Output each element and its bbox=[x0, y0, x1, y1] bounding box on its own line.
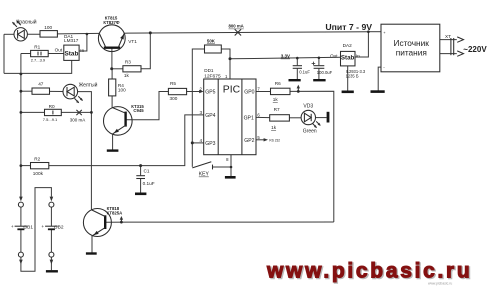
resistor R3 bbox=[123, 66, 141, 72]
svg-text:DA2: DA2 bbox=[343, 43, 353, 48]
wire: DA1 In riser bbox=[79, 34, 87, 51]
wire: GB1 battery to lower connector bbox=[20, 229, 22, 252]
wire: long drop to KT818 emitter bbox=[90, 112, 92, 209]
wire: PIC pin 8 drop to ground bbox=[230, 155, 232, 176]
resistor R7 bbox=[270, 115, 290, 121]
node: R0-row tap bbox=[20, 111, 23, 114]
node: yellow LED drop joins R0 row bbox=[90, 111, 93, 114]
wire: 47 resistor row bbox=[21, 90, 32, 92]
LED VD3 green bbox=[301, 110, 321, 128]
wire: C3 bottom stub to ground bbox=[318, 69, 320, 80]
svg-text:0.1uF: 0.1uF bbox=[143, 181, 155, 186]
svg-text:DD1: DD1 bbox=[204, 68, 214, 73]
wire: R2 to GP4 riser bbox=[49, 115, 204, 166]
wire: R1 right lead to DA1 Out bbox=[48, 53, 64, 55]
resistor R6 bbox=[271, 88, 291, 94]
svg-text:8: 8 bbox=[226, 157, 229, 162]
wire: left drop from red LED cathode node bbox=[3, 34, 5, 73]
node: ADJ / R1-left bbox=[20, 73, 23, 76]
connector pin GB1 top (arrow and socket) bbox=[18, 197, 23, 208]
resistor R4 (vertical) bbox=[109, 79, 116, 96]
svg-text:R3: R3 bbox=[125, 60, 131, 65]
wire: R6 to loop corner and drop to KT818 base run bbox=[290, 91, 334, 222]
svg-text:100: 100 bbox=[118, 88, 126, 93]
ground under DA2 bbox=[342, 91, 354, 94]
svg-text:GP3: GP3 bbox=[205, 141, 215, 147]
wire: C3 top stub bbox=[318, 58, 320, 66]
wire: 50K left lead and GP3 pull-down run to KEY bbox=[192, 49, 204, 167]
svg-text:100k: 100k bbox=[33, 171, 44, 176]
resistor R5 300 bbox=[168, 88, 186, 94]
connector pin GB1 bottom (socket and arrow) bbox=[18, 252, 23, 264]
node: KT818 base arrow tap bbox=[120, 221, 123, 224]
arrow up on KT818 base net bbox=[120, 216, 123, 222]
svg-text:1: 1 bbox=[225, 74, 228, 79]
wire: XT lower lead bbox=[440, 53, 457, 55]
svg-text:7.5...9.1: 7.5...9.1 bbox=[43, 117, 58, 122]
watermark www.picbasic.ru bbox=[266, 260, 474, 286]
ground under KT818 bbox=[86, 252, 97, 254]
IC DD1 PIC 12F675 box bbox=[204, 79, 256, 155]
svg-text:Stab: Stab bbox=[341, 55, 355, 62]
wire: C1 bottom stub to ground bbox=[140, 179, 142, 193]
wire: VT1 emitter to main rail right bbox=[124, 32, 368, 34]
node: 50K / GP3 / KEY bbox=[191, 141, 194, 144]
wire: R4 top and bottom stubs bbox=[111, 69, 113, 79]
svg-text:12F675: 12F675 bbox=[204, 74, 221, 80]
node: C1 on GP4 run bbox=[139, 164, 142, 167]
wire: resistor 100 to VT1 collector bbox=[57, 32, 99, 35]
wire: C1 top stub bbox=[140, 166, 142, 176]
resistor 47 bbox=[32, 88, 50, 94]
svg-text:-: - bbox=[383, 65, 385, 70]
wire: R3 row and riser to rail bbox=[112, 68, 123, 70]
svg-text:питания: питания bbox=[396, 48, 427, 58]
wire: DA2 In to Upit riser bbox=[355, 32, 368, 57]
node: C3 tap bbox=[318, 57, 321, 60]
wire: GP0 pin 7 to R6 bbox=[256, 91, 271, 93]
wire: GB1 bottom link to GB2 top bbox=[21, 188, 52, 272]
battery GB2 bbox=[45, 226, 58, 229]
svg-text:47: 47 bbox=[38, 81, 44, 86]
node: DA1 In riser on rail bbox=[86, 33, 89, 36]
svg-text:In: In bbox=[356, 54, 360, 59]
svg-text:С945: С945 bbox=[133, 108, 144, 113]
svg-text:GP2: GP2 bbox=[244, 138, 254, 144]
connector XT double bar bbox=[451, 38, 454, 55]
svg-text:+: + bbox=[11, 224, 14, 229]
svg-text:2: 2 bbox=[200, 86, 203, 91]
resistor 100 (top) bbox=[40, 31, 57, 37]
cross 300 mA measure point bbox=[76, 110, 81, 115]
svg-text:Красный: Красный bbox=[16, 19, 36, 26]
svg-text:300: 300 bbox=[170, 96, 178, 101]
svg-text:100: 100 bbox=[44, 25, 52, 30]
svg-text:~220V: ~220V bbox=[463, 45, 487, 54]
svg-text:GB2: GB2 bbox=[54, 224, 64, 230]
ground for power source minus bbox=[371, 90, 385, 93]
node: R2-row tap bbox=[20, 164, 23, 167]
svg-text:2.7...3.9: 2.7...3.9 bbox=[31, 58, 46, 63]
wire: R5 to GP5 pin 2 bbox=[187, 91, 202, 93]
wire: KEY switch right lead bbox=[213, 166, 232, 168]
svg-text:1235 Б: 1235 Б bbox=[346, 73, 359, 78]
svg-text:1k: 1k bbox=[271, 125, 277, 130]
svg-text:+: + bbox=[383, 30, 386, 35]
svg-text:800 mA: 800 mA bbox=[229, 24, 244, 29]
wire: KT818 collector drop to ground bbox=[91, 236, 93, 253]
battery GB1 bbox=[15, 226, 28, 229]
wire: VD3 cathode to ground wall bbox=[315, 117, 326, 119]
svg-text:R1: R1 bbox=[34, 44, 40, 49]
svg-text:1k: 1k bbox=[124, 73, 130, 78]
svg-text:R7: R7 bbox=[274, 107, 280, 112]
ground under KT315 emitter bbox=[107, 149, 119, 151]
arrowhead into GP5 pin 2 bbox=[199, 90, 203, 93]
svg-text:R5: R5 bbox=[170, 81, 176, 86]
wire: yellow LED right drop bbox=[78, 92, 92, 113]
node: C2 tap bbox=[296, 57, 299, 60]
wire: GB1 socket to battery bbox=[20, 207, 22, 226]
ground wall at VD3 cathode bbox=[327, 112, 330, 123]
svg-text:PIC: PIC bbox=[223, 85, 241, 96]
power source box bbox=[381, 24, 440, 72]
svg-text:Uпит 7 - 9V: Uпит 7 - 9V bbox=[325, 22, 372, 32]
wire: R0 row left bbox=[21, 111, 45, 113]
svg-text:XT: XT bbox=[445, 34, 451, 39]
ground under GB2 bbox=[46, 270, 58, 272]
svg-text:Green: Green bbox=[303, 128, 317, 134]
wire: C2 bottom stub to ground bbox=[296, 69, 298, 80]
svg-text:GB1: GB1 bbox=[23, 224, 33, 230]
node: Upit riser top bbox=[367, 30, 370, 33]
stab DA2 box bbox=[341, 51, 356, 66]
svg-text:3.3V: 3.3V bbox=[281, 54, 290, 59]
wire: PIC pin 1 riser bbox=[229, 59, 231, 79]
ground under C3 bbox=[313, 79, 325, 81]
wire: top rail left stub to red LED bbox=[4, 33, 14, 35]
wire: R1 left lead bbox=[21, 53, 31, 55]
switch KEY bbox=[192, 162, 212, 170]
wire: GB2 socket to battery bbox=[50, 207, 52, 226]
svg-text:LM317: LM317 bbox=[64, 38, 79, 43]
node: VT1 base / R3 / R4 bbox=[110, 67, 113, 70]
wire: power source plus stub bbox=[368, 31, 381, 33]
wire: XT upper lead bbox=[440, 39, 457, 41]
svg-text:4: 4 bbox=[200, 138, 203, 143]
node: Vdd junction bbox=[229, 57, 232, 60]
node: KEY right / pin8 ground bbox=[230, 166, 233, 169]
wire: C2 top stub bbox=[296, 58, 298, 65]
LED VD1 red bbox=[12, 20, 27, 41]
svg-text:R6: R6 bbox=[275, 81, 281, 86]
svg-text:VD3: VD3 bbox=[303, 104, 313, 110]
resistor R2 bbox=[31, 163, 49, 169]
wire: R7 to VD3 anode bbox=[289, 117, 301, 119]
wire: GP1 pin 6 to R7 bbox=[256, 116, 270, 118]
svg-text:R0: R0 bbox=[49, 104, 55, 109]
svg-text:www.picbasic.ru: www.picbasic.ru bbox=[428, 282, 452, 286]
wire: GB2 battery to lower connector bbox=[50, 229, 52, 252]
resistor R1 bbox=[31, 50, 49, 56]
capacitor C3 100uF polarized bbox=[312, 62, 325, 69]
svg-text:Источник: Источник bbox=[393, 38, 429, 48]
resistor R0 current sense bbox=[45, 109, 62, 115]
svg-text:RS 232: RS 232 bbox=[269, 139, 280, 143]
svg-text:GP1: GP1 bbox=[244, 115, 254, 121]
wire: DA2 ground pin bbox=[347, 66, 349, 91]
connector XT arrows to 220V bbox=[457, 37, 463, 56]
op-amp DA1 LM317 stab box bbox=[64, 45, 79, 60]
wire: GB2 bottom to ground bbox=[50, 257, 52, 270]
resistor 50K bbox=[205, 45, 222, 53]
svg-text:100.0uF: 100.0uF bbox=[317, 70, 333, 75]
svg-text:Stab: Stab bbox=[65, 51, 79, 58]
svg-text:7: 7 bbox=[257, 86, 260, 91]
svg-text:R2: R2 bbox=[34, 156, 40, 161]
svg-text:In: In bbox=[80, 48, 84, 53]
svg-text:GP5: GP5 bbox=[205, 90, 215, 96]
wire: GB1 column upper bbox=[20, 166, 22, 197]
ground under C1 bbox=[135, 193, 146, 196]
wire: yellow LED leads bbox=[50, 90, 64, 92]
svg-text:Out: Out bbox=[55, 48, 63, 53]
capacitor C2 0.1uF bbox=[293, 66, 302, 69]
wire: GP2 pin 5 stub bbox=[256, 139, 265, 141]
svg-text:Out: Out bbox=[330, 53, 338, 58]
wire: 3.3V rail to DA2 Out bbox=[230, 57, 341, 59]
svg-text:5: 5 bbox=[257, 135, 260, 140]
transistor VT2 KT315 bbox=[104, 107, 133, 136]
wire: VT1 base drop bbox=[111, 48, 113, 69]
ground under PIC pin 8 bbox=[225, 176, 236, 179]
wire: DA1 adj bottom run bbox=[4, 60, 72, 73]
wire: GP3 pin 4 lead bbox=[192, 142, 203, 144]
LED VD2 yellow bbox=[63, 84, 83, 103]
svg-text:6: 6 bbox=[257, 112, 260, 117]
svg-text:GP4: GP4 bbox=[205, 113, 215, 119]
svg-text:КТ825А: КТ825А bbox=[107, 211, 123, 216]
svg-text:KEY: KEY bbox=[199, 172, 210, 178]
wire: power source minus drop to ground bbox=[378, 67, 381, 90]
capacitor C1 bbox=[136, 176, 145, 179]
connector pin GB2 bottom (socket and arrow) bbox=[49, 252, 54, 264]
svg-text:3: 3 bbox=[200, 110, 203, 115]
node: R6 net arrow tap bbox=[297, 90, 300, 93]
svg-text:Желтый: Желтый bbox=[79, 82, 98, 89]
svg-text:GP0: GP0 bbox=[244, 90, 254, 96]
svg-text:50K: 50K bbox=[207, 38, 216, 43]
arrow up on R6 net bbox=[297, 85, 300, 92]
connector pin GB2 top (arrow and socket) bbox=[49, 197, 54, 208]
svg-text:www.picbasic.ru: www.picbasic.ru bbox=[266, 260, 472, 283]
svg-text:300 mA: 300 mA bbox=[70, 118, 86, 123]
svg-text:0.1uF: 0.1uF bbox=[299, 70, 310, 75]
transistor VT1 KT815 bbox=[98, 25, 125, 52]
wire: KT818 base long run bbox=[106, 221, 334, 223]
svg-text:КТ837Ф: КТ837Ф bbox=[103, 20, 120, 25]
ground under C2 bbox=[289, 79, 301, 81]
wire: 50K right lead to Vdd node bbox=[221, 49, 230, 59]
wire: R2 left lead bbox=[21, 165, 31, 167]
wire: KT315 base run to R5 bbox=[126, 92, 169, 120]
transistor VT3 KT818 bbox=[83, 209, 111, 237]
wire: left vertical bus R1 to GB1 connector bbox=[20, 54, 22, 198]
svg-text:1k: 1k bbox=[273, 97, 279, 102]
cross 800 mA measure point bbox=[235, 29, 241, 35]
arrowhead out of GP2 pin 5 bbox=[264, 138, 268, 141]
svg-text:C1: C1 bbox=[144, 169, 150, 174]
wire: R0 row right through 300mA cross bbox=[61, 111, 91, 113]
node: R3 riser on rail bbox=[149, 31, 152, 34]
wire: KT315 emitter drop to ground bbox=[112, 134, 114, 150]
svg-text:VT1: VT1 bbox=[128, 39, 137, 44]
node: 47-row tap bbox=[20, 90, 23, 93]
svg-text:+: + bbox=[41, 224, 44, 229]
wire: red LED to resistor 100 bbox=[27, 33, 40, 35]
